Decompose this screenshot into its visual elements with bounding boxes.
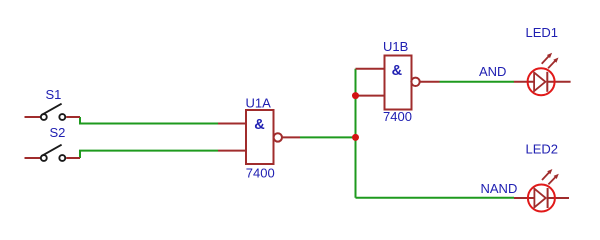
svg-text:7400: 7400 xyxy=(383,109,412,124)
svg-text:LED2: LED2 xyxy=(526,142,559,157)
svg-text:&: & xyxy=(254,117,265,133)
svg-text:U1A: U1A xyxy=(246,96,272,111)
svg-text:NAND: NAND xyxy=(481,181,518,196)
svg-text:LED1: LED1 xyxy=(526,25,559,40)
svg-text:7400: 7400 xyxy=(246,166,275,181)
svg-text:U1B: U1B xyxy=(383,39,408,54)
svg-text:&: & xyxy=(392,63,403,79)
svg-text:S1: S1 xyxy=(46,87,62,102)
svg-text:S2: S2 xyxy=(50,125,66,140)
svg-text:AND: AND xyxy=(479,64,506,79)
